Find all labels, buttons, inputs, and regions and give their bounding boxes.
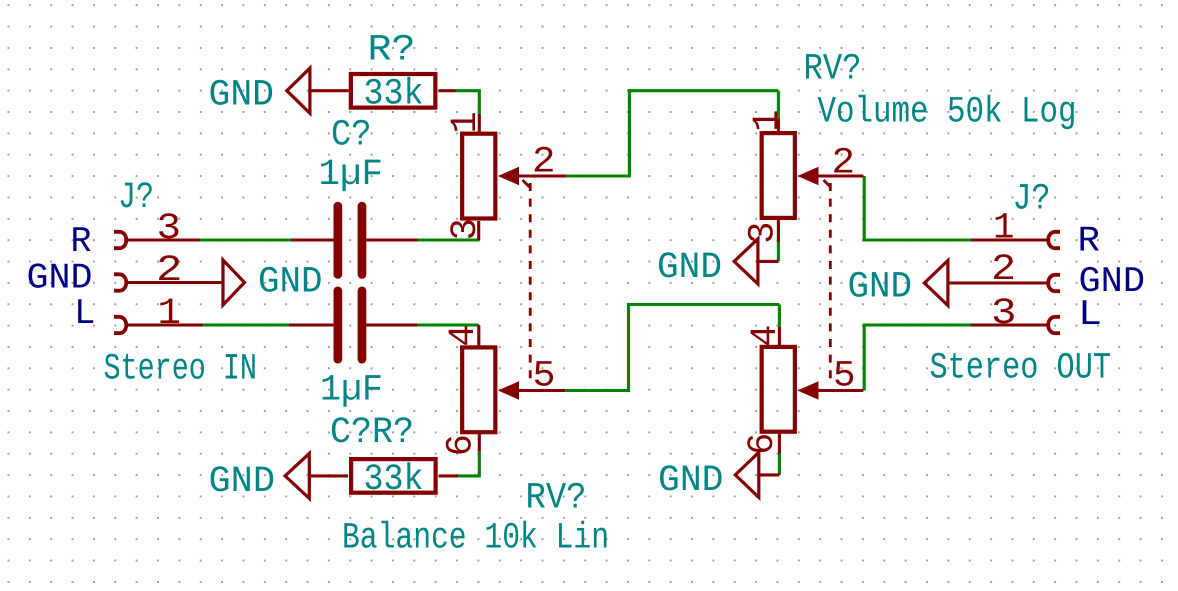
svg-text:3: 3 [991, 293, 1017, 335]
svg-text:C?: C? [331, 115, 372, 157]
svg-text:GND: GND [209, 461, 276, 503]
svg-text:L: L [1078, 294, 1102, 335]
svg-text:1: 1 [445, 111, 487, 133]
svg-text:3: 3 [742, 221, 784, 243]
svg-text:5: 5 [833, 356, 856, 398]
svg-text:C?R?: C?R? [330, 412, 414, 454]
svg-text:6: 6 [742, 433, 784, 455]
svg-text:Stereo IN: Stereo IN [104, 349, 258, 391]
svg-text:6: 6 [440, 434, 482, 456]
svg-text:R?: R? [368, 30, 416, 72]
svg-text:1: 1 [747, 109, 789, 131]
svg-text:33k: 33k [364, 459, 424, 501]
svg-text:GND: GND [657, 247, 722, 289]
svg-text:R: R [1078, 221, 1101, 262]
svg-text:3: 3 [157, 208, 182, 250]
svg-text:1µF: 1µF [319, 154, 384, 196]
svg-text:GND: GND [258, 261, 323, 303]
svg-text:4: 4 [443, 325, 485, 347]
svg-text:RV?: RV? [804, 49, 862, 91]
svg-text:GND: GND [658, 460, 724, 502]
svg-text:2: 2 [991, 249, 1016, 291]
svg-text:1: 1 [158, 293, 182, 335]
svg-text:L: L [74, 293, 96, 334]
svg-text:Volume 50k Log: Volume 50k Log [818, 92, 1077, 134]
svg-text:33k: 33k [364, 74, 424, 116]
svg-text:Stereo OUT: Stereo OUT [930, 348, 1112, 390]
svg-text:2: 2 [532, 142, 556, 184]
svg-text:Balance 10k Lin: Balance 10k Lin [342, 518, 609, 560]
svg-text:5: 5 [533, 356, 556, 398]
svg-text:2: 2 [156, 250, 183, 292]
svg-text:1µF: 1µF [320, 370, 383, 412]
svg-text:GND: GND [848, 267, 913, 309]
svg-text:RV?: RV? [526, 478, 587, 520]
svg-text:R: R [71, 221, 92, 262]
svg-text:4: 4 [745, 325, 787, 347]
svg-text:2: 2 [832, 143, 856, 185]
svg-text:J?: J? [118, 177, 154, 219]
svg-text:3: 3 [445, 218, 487, 240]
svg-text:J?: J? [1013, 179, 1051, 221]
svg-text:1: 1 [993, 208, 1015, 250]
svg-text:GND: GND [209, 75, 275, 117]
